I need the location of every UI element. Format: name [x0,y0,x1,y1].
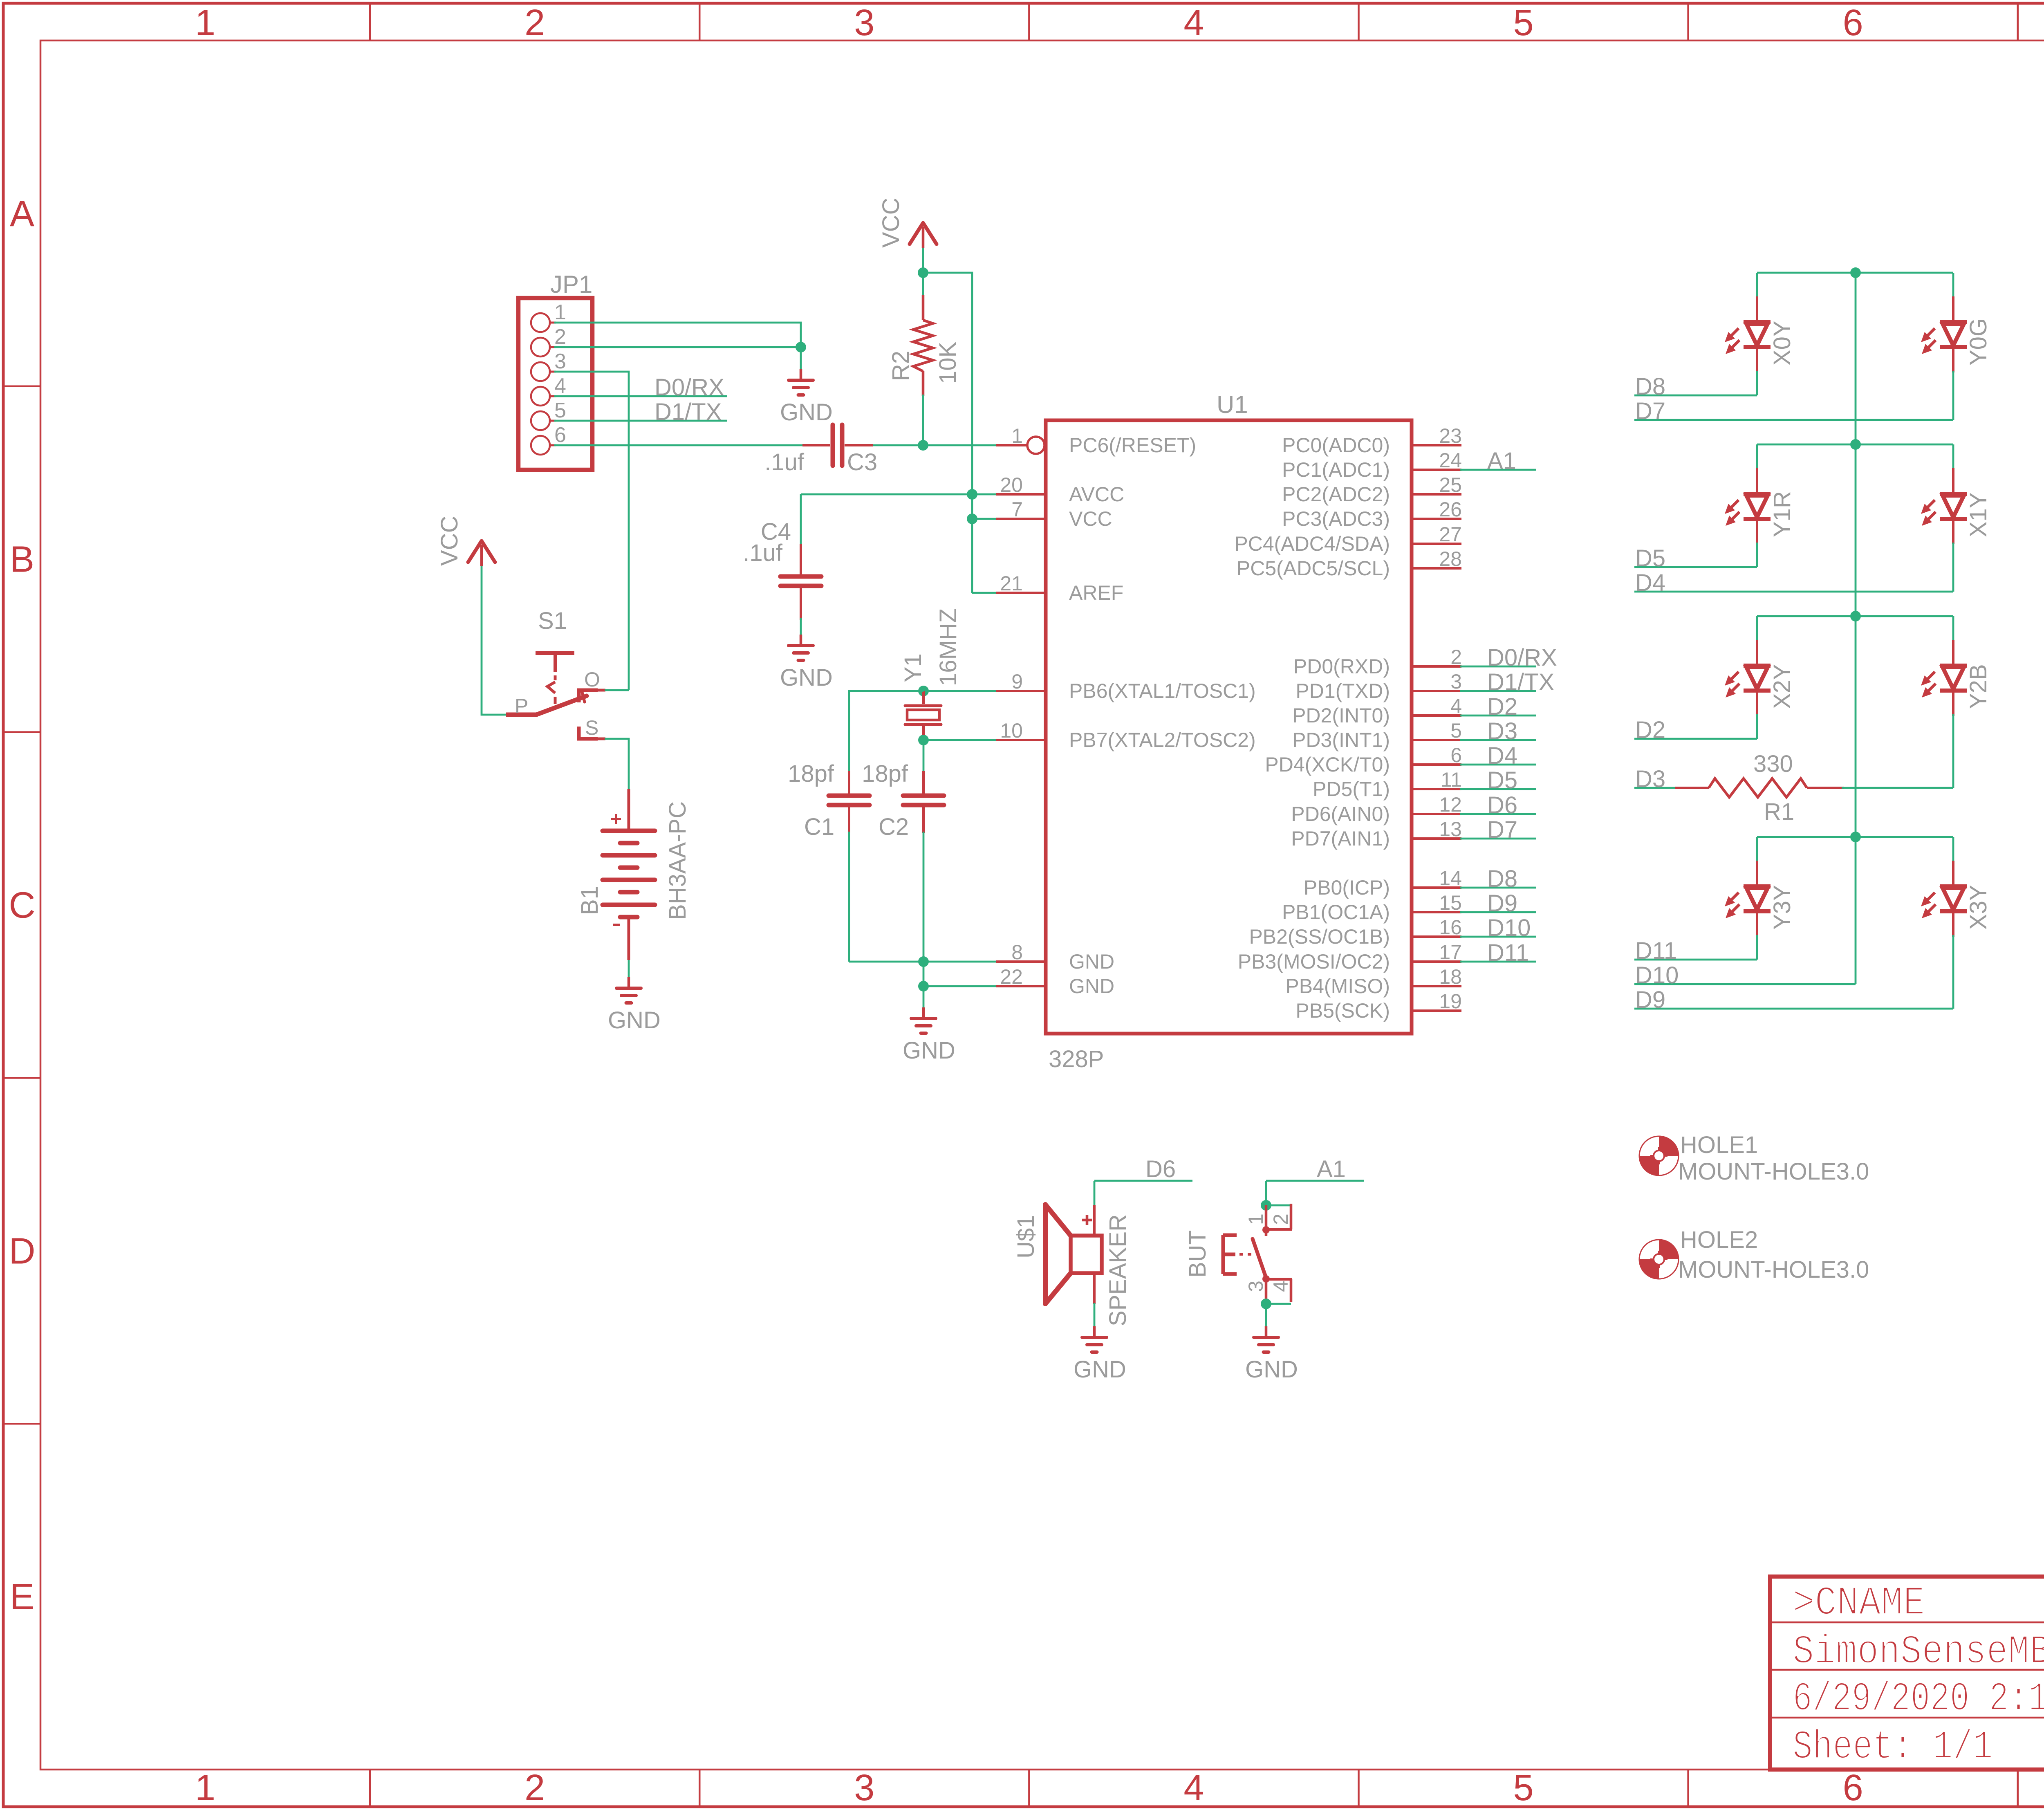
svg-text:D9: D9 [1487,890,1517,917]
svg-text:B: B [10,539,34,580]
svg-text:Y0G: Y0G [1965,318,1992,366]
svg-text:27: 27 [1439,523,1462,546]
svg-text:GND: GND [780,399,833,426]
svg-text:.1uf: .1uf [743,540,783,566]
svg-text:D2: D2 [1635,717,1665,743]
svg-text:PB7(XTAL2/TOSC2): PB7(XTAL2/TOSC2) [1069,729,1256,751]
svg-text:X3Y: X3Y [1965,885,1992,930]
svg-text:D3: D3 [1635,766,1665,792]
svg-text:15: 15 [1439,891,1462,914]
svg-text:3: 3 [1450,670,1462,693]
svg-text:D0/RX: D0/RX [654,374,724,401]
svg-text:2: 2 [524,2,545,43]
svg-text:3: 3 [854,2,874,43]
svg-text:4: 4 [1183,2,1204,43]
svg-text:1: 1 [1011,424,1023,447]
svg-text:GND: GND [1069,950,1114,973]
svg-text:D3: D3 [1487,718,1517,745]
svg-text:16: 16 [1439,916,1462,939]
svg-text:C3: C3 [847,449,877,475]
svg-text:D8: D8 [1635,373,1665,400]
svg-text:Y1R: Y1R [1769,491,1795,537]
svg-text:>CNAME: >CNAME [1793,1581,1925,1627]
svg-text:D2: D2 [1487,693,1517,720]
svg-text:X0Y: X0Y [1769,321,1795,366]
svg-text:PC1(ADC1): PC1(ADC1) [1282,458,1390,481]
svg-text:PB3(MOSI/OC2): PB3(MOSI/OC2) [1238,950,1390,973]
svg-text:PD5(T1): PD5(T1) [1313,778,1390,801]
svg-text:28: 28 [1439,547,1462,570]
svg-text:U$1: U$1 [1013,1215,1039,1258]
svg-text:D1/TX: D1/TX [1487,669,1554,695]
svg-text:PD3(INT1): PD3(INT1) [1292,729,1390,751]
svg-text:MOUNT-HOLE3.0: MOUNT-HOLE3.0 [1678,1158,1869,1185]
svg-text:C: C [9,885,36,926]
svg-text:2: 2 [1269,1213,1292,1225]
svg-text:25: 25 [1439,473,1462,496]
svg-text:PC0(ADC0): PC0(ADC0) [1282,434,1390,457]
svg-text:D10: D10 [1635,962,1679,989]
svg-text:21: 21 [1000,572,1023,595]
svg-text:PD4(XCK/T0): PD4(XCK/T0) [1265,753,1390,776]
svg-text:PC2(ADC2): PC2(ADC2) [1282,483,1390,506]
svg-text:6/29/2020 2:13 PM: 6/29/2020 2:13 PM [1793,1676,2044,1723]
svg-text:P: P [515,695,528,718]
svg-text:VCC: VCC [436,516,463,566]
svg-text:D1/TX: D1/TX [654,399,722,425]
svg-text:5: 5 [1450,719,1462,742]
svg-text:14: 14 [1439,867,1462,890]
svg-text:A1: A1 [1487,448,1516,474]
svg-text:5: 5 [1513,2,1534,43]
svg-text:D5: D5 [1635,545,1665,572]
svg-text:HOLE1: HOLE1 [1680,1132,1758,1158]
svg-text:6: 6 [1843,1767,1863,1808]
svg-text:GND: GND [780,664,833,691]
svg-text:9: 9 [1011,670,1023,693]
svg-text:BH3AA-PC: BH3AA-PC [664,801,691,920]
svg-text:D10: D10 [1487,915,1531,941]
svg-text:SPEAKER: SPEAKER [1105,1214,1131,1326]
svg-text:PB0(ICP): PB0(ICP) [1304,876,1390,899]
svg-text:1: 1 [195,1767,215,1808]
svg-text:JP1: JP1 [550,271,592,298]
svg-text:X2Y: X2Y [1769,664,1795,709]
svg-text:18pf: 18pf [862,760,908,787]
svg-text:HOLE2: HOLE2 [1680,1227,1758,1253]
svg-text:SimonSenseMBTH_V24: SimonSenseMBTH_V24 [1793,1629,2044,1675]
svg-text:R1: R1 [1764,798,1794,825]
svg-text:D7: D7 [1487,816,1517,843]
svg-text:PD7(AIN1): PD7(AIN1) [1291,827,1390,850]
svg-text:PC4(ADC4/SDA): PC4(ADC4/SDA) [1234,532,1390,555]
svg-text:Y3Y: Y3Y [1769,885,1795,930]
svg-text:PC5(ADC5/SCL): PC5(ADC5/SCL) [1237,557,1390,580]
svg-text:PD6(AIN0): PD6(AIN0) [1291,803,1390,825]
svg-text:AREF: AREF [1069,581,1123,604]
svg-text:E: E [10,1577,34,1617]
svg-text:1: 1 [554,301,566,324]
svg-text:S1: S1 [538,608,567,634]
svg-text:7: 7 [1011,498,1023,521]
svg-text:D7: D7 [1635,398,1665,424]
svg-text:A1: A1 [1317,1156,1346,1182]
svg-text:11: 11 [1441,768,1462,791]
svg-text:R2: R2 [888,351,914,381]
svg-text:PB4(MISO): PB4(MISO) [1285,975,1390,998]
svg-text:330: 330 [1753,751,1793,777]
svg-text:PD0(RXD): PD0(RXD) [1293,655,1390,678]
svg-text:1: 1 [195,2,215,43]
svg-text:24: 24 [1439,449,1462,472]
svg-text:D4: D4 [1635,570,1665,596]
svg-text:D9: D9 [1635,987,1665,1013]
svg-text:GND: GND [1245,1356,1298,1383]
svg-text:19: 19 [1439,990,1462,1013]
svg-text:12: 12 [1439,793,1462,816]
svg-text:4: 4 [554,374,566,398]
svg-text:17: 17 [1439,941,1462,964]
svg-text:23: 23 [1439,424,1462,447]
svg-text:4: 4 [1269,1281,1292,1292]
svg-text:6: 6 [1843,2,1863,43]
svg-text:10K: 10K [935,341,961,384]
svg-text:Sheet: 1/1: Sheet: 1/1 [1793,1725,1993,1771]
svg-text:D8: D8 [1487,866,1517,892]
svg-text:A: A [10,193,34,234]
svg-text:5: 5 [1513,1767,1534,1808]
svg-text:D5: D5 [1487,767,1517,794]
svg-text:3: 3 [1244,1281,1267,1292]
svg-text:4: 4 [1450,695,1462,718]
svg-text:AVCC: AVCC [1069,483,1124,506]
svg-text:PD1(TXD): PD1(TXD) [1295,680,1390,702]
svg-text:D: D [9,1231,36,1272]
svg-text:BUT: BUT [1184,1230,1211,1278]
svg-text:D0/RX: D0/RX [1487,644,1557,671]
svg-text:D6: D6 [1145,1156,1176,1182]
svg-text:PB2(SS/OC1B): PB2(SS/OC1B) [1249,925,1390,948]
svg-text:D11: D11 [1487,940,1529,966]
svg-text:26: 26 [1439,498,1462,521]
svg-text:VCC: VCC [878,198,904,248]
svg-text:18: 18 [1439,965,1462,988]
svg-text:13: 13 [1439,818,1462,841]
svg-text:22: 22 [1000,965,1023,988]
svg-text:PC6(/RESET): PC6(/RESET) [1069,434,1196,457]
svg-text:GND: GND [1069,975,1114,998]
svg-text:16MHZ: 16MHZ [935,608,961,686]
svg-text:10: 10 [1000,719,1023,742]
svg-text:D11: D11 [1635,938,1677,964]
svg-text:Y1: Y1 [900,653,926,682]
svg-text:PB1(OC1A): PB1(OC1A) [1282,901,1390,924]
svg-text:PC3(ADC3): PC3(ADC3) [1282,507,1390,530]
svg-text:2: 2 [554,325,566,349]
svg-text:Y2B: Y2B [1965,664,1992,709]
svg-text:3: 3 [554,350,566,373]
svg-text:PB6(XTAL1/TOSC1): PB6(XTAL1/TOSC1) [1069,680,1256,702]
svg-text:5: 5 [554,399,566,422]
svg-text:X1Y: X1Y [1965,492,1992,537]
svg-text:18pf: 18pf [788,760,834,787]
svg-text:VCC: VCC [1069,507,1112,530]
svg-text:GND: GND [608,1007,661,1034]
svg-text:S: S [585,716,598,739]
svg-text:328P: 328P [1049,1046,1104,1072]
svg-text:8: 8 [1011,941,1023,964]
svg-text:6: 6 [1450,744,1462,767]
svg-text:O: O [584,668,600,691]
svg-text:PB5(SCK): PB5(SCK) [1295,999,1390,1022]
svg-text:U1: U1 [1217,391,1248,418]
svg-text:20: 20 [1000,473,1023,496]
svg-text:GND: GND [903,1037,955,1064]
svg-text:6: 6 [554,423,566,447]
svg-text:2: 2 [524,1767,545,1808]
svg-text:2: 2 [1450,646,1462,668]
svg-text:3: 3 [854,1767,874,1808]
svg-text:D4: D4 [1487,742,1517,769]
svg-text:GND: GND [1074,1356,1126,1383]
svg-text:PD2(INT0): PD2(INT0) [1292,704,1390,727]
svg-text:C1: C1 [804,814,834,840]
svg-text:.1uf: .1uf [764,449,805,475]
svg-text:MOUNT-HOLE3.0: MOUNT-HOLE3.0 [1678,1256,1869,1283]
svg-text:C2: C2 [879,814,909,840]
svg-text:4: 4 [1183,1767,1204,1808]
svg-text:D6: D6 [1487,792,1517,819]
svg-text:B1: B1 [576,886,603,915]
svg-text:1: 1 [1244,1213,1267,1225]
